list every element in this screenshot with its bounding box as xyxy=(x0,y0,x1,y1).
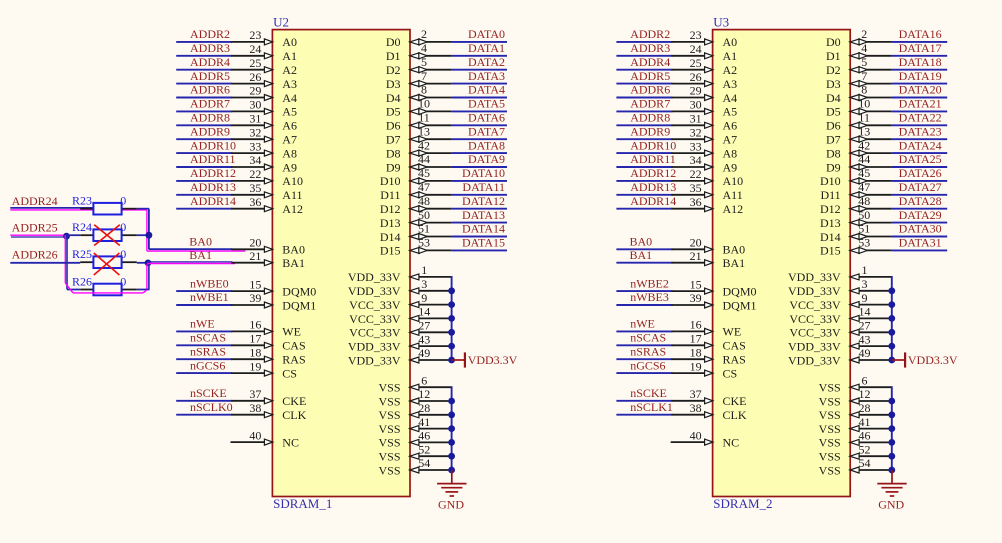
svg-text:VSS: VSS xyxy=(378,463,400,477)
svg-text:43: 43 xyxy=(418,332,430,346)
wire net ADDR14 xyxy=(176,208,232,210)
pin 39 (DQM1) of U2 xyxy=(231,291,316,312)
wire net DATA27 xyxy=(892,194,948,196)
pin 34 (A9) of U2 xyxy=(231,153,297,174)
svg-text:DATA21: DATA21 xyxy=(899,97,942,111)
svg-text:A2: A2 xyxy=(723,63,738,77)
svg-text:15: 15 xyxy=(249,277,261,291)
wire net nSRAS xyxy=(616,358,672,360)
svg-text:WE: WE xyxy=(282,325,301,339)
svg-text:20: 20 xyxy=(690,236,702,250)
svg-text:A3: A3 xyxy=(723,77,738,91)
svg-text:ADDR2: ADDR2 xyxy=(630,27,670,41)
svg-text:A0: A0 xyxy=(282,35,297,49)
svg-text:VSS: VSS xyxy=(378,381,400,395)
pin 41 (VSS) of U3 xyxy=(819,415,892,436)
wire net ADDR8 xyxy=(616,124,672,126)
svg-text:36: 36 xyxy=(249,195,261,209)
svg-text:A4: A4 xyxy=(282,91,297,105)
junction at ADDR25 / R24 / R26 xyxy=(63,233,70,240)
svg-text:44: 44 xyxy=(418,152,430,166)
svg-text:nSRAS: nSRAS xyxy=(190,344,226,358)
wire net nSCAS xyxy=(616,344,672,346)
svg-text:40: 40 xyxy=(249,428,261,442)
pin 18 (RAS) of U3 xyxy=(672,345,746,366)
svg-text:47: 47 xyxy=(418,180,430,194)
wire net DATA7 xyxy=(451,138,507,140)
wire net DATA26 xyxy=(892,180,948,182)
svg-text:DATA17: DATA17 xyxy=(899,41,942,55)
svg-text:R26: R26 xyxy=(72,274,92,288)
wire net ADDR24 (selected) xyxy=(10,208,147,210)
svg-text:CLK: CLK xyxy=(723,408,747,422)
svg-text:A10: A10 xyxy=(282,174,303,188)
wire net DATA0 xyxy=(451,41,507,43)
pin 49 (VDD_33V) of U3 xyxy=(788,346,892,367)
svg-text:1: 1 xyxy=(421,263,427,277)
wire net ADDR6 xyxy=(176,97,232,99)
svg-text:DATA11: DATA11 xyxy=(462,180,505,194)
pin 10 (D5) of U2 xyxy=(386,97,452,119)
svg-text:41: 41 xyxy=(859,415,871,429)
svg-text:7: 7 xyxy=(861,69,867,83)
svg-text:A8: A8 xyxy=(282,146,297,160)
wire net DATA14 xyxy=(451,236,507,238)
svg-text:VCC_33V: VCC_33V xyxy=(789,312,841,326)
svg-text:NC: NC xyxy=(723,435,740,449)
svg-text:A1: A1 xyxy=(723,49,738,63)
svg-text:D9: D9 xyxy=(826,160,841,174)
svg-text:D13: D13 xyxy=(380,216,401,230)
svg-text:DATA5: DATA5 xyxy=(468,97,505,111)
pin 9 (VCC_33V) of U3 xyxy=(789,291,891,312)
svg-text:19: 19 xyxy=(249,359,261,373)
pin 19 (CS) of U3 xyxy=(672,359,738,380)
pin 37 (CKE) of U2 xyxy=(231,387,306,408)
svg-text:2: 2 xyxy=(861,27,867,41)
wire net DATA18 xyxy=(892,69,948,71)
svg-text:25: 25 xyxy=(249,56,261,70)
svg-text:3: 3 xyxy=(421,277,427,291)
svg-text:R24: R24 xyxy=(72,220,92,234)
svg-text:D14: D14 xyxy=(820,230,841,244)
pin 33 (A8) of U2 xyxy=(231,139,297,160)
GND rail of U3 xyxy=(891,386,893,471)
pin 41 (VSS) of U2 xyxy=(378,415,451,436)
svg-text:ADDR11: ADDR11 xyxy=(630,152,676,166)
junction on GND rail of U3 xyxy=(888,398,895,405)
svg-text:VSS: VSS xyxy=(378,394,400,408)
svg-text:24: 24 xyxy=(249,42,261,56)
pin 10 (D5) of U3 xyxy=(826,97,892,119)
svg-text:CKE: CKE xyxy=(282,394,306,408)
svg-text:2: 2 xyxy=(421,27,427,41)
wire net nWBE3 xyxy=(616,304,672,306)
svg-text:A5: A5 xyxy=(723,105,738,119)
svg-text:43: 43 xyxy=(859,332,871,346)
svg-text:ADDR7: ADDR7 xyxy=(190,97,230,111)
svg-text:47: 47 xyxy=(858,180,870,194)
wire net DATA13 xyxy=(451,222,507,224)
svg-text:VSS: VSS xyxy=(819,394,841,408)
no-fit cross on R25 xyxy=(94,253,120,275)
junction on GND rail of U2 xyxy=(448,425,455,432)
wire net BA1 xyxy=(616,262,672,264)
svg-text:D0: D0 xyxy=(386,35,401,49)
pin 8 (D4) of U2 xyxy=(386,83,452,105)
pin 32 (A7) of U3 xyxy=(672,125,738,146)
wire net BA0 (selected) xyxy=(147,249,246,251)
wire net ADDR26 xyxy=(10,262,80,264)
wire net DATA16 xyxy=(892,41,948,43)
svg-text:D10: D10 xyxy=(820,174,841,188)
svg-text:52: 52 xyxy=(859,442,871,456)
svg-text:15: 15 xyxy=(690,277,702,291)
wire net DATA21 xyxy=(892,110,948,112)
junction on VDD rail of U2 xyxy=(448,329,455,336)
svg-text:R25: R25 xyxy=(72,247,92,261)
svg-text:D1: D1 xyxy=(386,49,401,63)
svg-text:A8: A8 xyxy=(723,146,738,160)
svg-text:A11: A11 xyxy=(723,188,743,202)
wire net DATA31 xyxy=(892,249,948,251)
svg-text:DATA18: DATA18 xyxy=(899,55,942,69)
svg-text:27: 27 xyxy=(859,319,871,333)
svg-text:nGCS6: nGCS6 xyxy=(630,358,665,372)
pin 2 (D0) of U2 xyxy=(386,27,452,49)
pin 36 (A12) of U3 xyxy=(672,195,744,216)
svg-text:34: 34 xyxy=(249,153,261,167)
wire junction to R26 xyxy=(67,289,80,291)
svg-text:VSS: VSS xyxy=(378,408,400,422)
pin 15 (DQM0) of U2 xyxy=(231,277,316,298)
resistor R25 xyxy=(72,247,137,268)
pin 54 (VSS) of U2 xyxy=(378,456,451,477)
svg-text:D12: D12 xyxy=(380,202,401,216)
wire net ADDR8 xyxy=(176,124,232,126)
pin 4 (D1) of U3 xyxy=(826,41,892,63)
SDRAM chip U2 body xyxy=(272,30,410,497)
junction on VDD rail of U3 xyxy=(888,357,895,364)
svg-text:ADDR2: ADDR2 xyxy=(190,27,230,41)
svg-text:nWBE1: nWBE1 xyxy=(190,290,229,304)
pin 38 (CLK) of U2 xyxy=(231,401,306,422)
svg-text:30: 30 xyxy=(249,98,261,112)
resistor R26 xyxy=(72,274,137,295)
svg-text:DATA0: DATA0 xyxy=(468,27,505,41)
GND rail of U2 xyxy=(451,386,453,471)
pin 12 (VSS) of U2 xyxy=(378,387,451,408)
svg-text:A2: A2 xyxy=(282,63,297,77)
pin 26 (A3) of U2 xyxy=(231,70,297,91)
wire net nSCLK0 xyxy=(176,414,232,416)
svg-text:22: 22 xyxy=(249,167,261,181)
svg-text:34: 34 xyxy=(690,153,702,167)
pin 20 (BA0) of U2 xyxy=(231,236,305,257)
junction on VDD rail of U3 xyxy=(888,315,895,322)
svg-text:D8: D8 xyxy=(826,146,841,160)
wire net nWE xyxy=(176,330,232,332)
svg-text:CS: CS xyxy=(723,366,738,380)
wire net ADDR3 xyxy=(616,55,672,57)
wire net ADDR7 xyxy=(176,110,232,112)
svg-text:BA1: BA1 xyxy=(282,256,305,270)
pin 9 (VCC_33V) of U2 xyxy=(349,291,451,312)
wire net ADDR13 xyxy=(176,194,232,196)
svg-text:VSS: VSS xyxy=(378,450,400,464)
svg-text:51: 51 xyxy=(858,222,870,236)
svg-text:VCC_33V: VCC_33V xyxy=(789,326,841,340)
wire net DATA29 xyxy=(892,222,948,224)
svg-text:A11: A11 xyxy=(282,188,302,202)
svg-text:SDRAM_1: SDRAM_1 xyxy=(273,496,332,511)
pin 46 (VSS) of U3 xyxy=(819,429,892,450)
svg-text:BA0: BA0 xyxy=(630,235,653,249)
pin 23 (A0) of U3 xyxy=(672,28,738,49)
svg-text:A12: A12 xyxy=(723,202,744,216)
pin 54 (VSS) of U3 xyxy=(819,456,892,477)
power port VDD3.3V of U2 xyxy=(452,352,518,367)
svg-text:VDD_33V: VDD_33V xyxy=(788,284,841,298)
svg-text:0: 0 xyxy=(120,220,126,234)
pin 5 (D2) of U2 xyxy=(386,55,452,77)
resistor R23 xyxy=(72,194,137,215)
wire net DATA10 xyxy=(451,180,507,182)
pin 45 (D10) of U2 xyxy=(380,166,452,188)
junction on VDD rail of U3 xyxy=(888,329,895,336)
svg-text:33: 33 xyxy=(690,139,702,153)
pin 49 (VDD_33V) of U2 xyxy=(348,346,452,367)
svg-text:30: 30 xyxy=(690,98,702,112)
svg-text:DATA16: DATA16 xyxy=(899,27,942,41)
wire net DATA23 xyxy=(892,138,948,140)
svg-text:ADDR25: ADDR25 xyxy=(12,221,58,235)
wire net DATA15 xyxy=(451,249,507,251)
svg-text:8: 8 xyxy=(861,83,867,97)
wire R23 to BA0 node xyxy=(137,209,149,251)
pin 12 (VSS) of U3 xyxy=(819,387,892,408)
svg-text:WE: WE xyxy=(723,325,742,339)
junction on GND rail of U2 xyxy=(448,453,455,460)
svg-text:ADDR9: ADDR9 xyxy=(630,124,670,138)
svg-text:D5: D5 xyxy=(386,105,401,119)
pin 8 (D4) of U3 xyxy=(826,83,892,105)
pin 5 (D2) of U3 xyxy=(826,55,892,77)
pin 6 (VSS) of U2 xyxy=(378,373,451,394)
svg-text:ADDR5: ADDR5 xyxy=(190,69,230,83)
wire net DATA9 xyxy=(451,166,507,168)
svg-text:45: 45 xyxy=(418,166,430,180)
pin 28 (VSS) of U2 xyxy=(378,401,451,422)
wire net BA1 (selected) xyxy=(147,262,235,264)
svg-text:ADDR10: ADDR10 xyxy=(630,138,676,152)
junction on VDD rail of U3 xyxy=(888,343,895,350)
pin 51 (D14) of U3 xyxy=(820,222,892,244)
wire R25 to BA1 node xyxy=(137,262,148,264)
svg-text:21: 21 xyxy=(690,249,702,263)
svg-text:11: 11 xyxy=(858,111,870,125)
svg-text:A9: A9 xyxy=(723,160,738,174)
wire net ADDR11 xyxy=(616,166,672,168)
svg-text:13: 13 xyxy=(418,124,430,138)
wire net ADDR9 xyxy=(616,138,672,140)
svg-text:5: 5 xyxy=(861,55,867,69)
svg-text:VCC_33V: VCC_33V xyxy=(789,298,841,312)
svg-text:U2: U2 xyxy=(273,14,289,29)
svg-text:38: 38 xyxy=(249,401,261,415)
svg-text:DATA24: DATA24 xyxy=(899,138,942,152)
svg-text:ADDR3: ADDR3 xyxy=(190,41,230,55)
svg-text:32: 32 xyxy=(249,125,261,139)
wire net ADDR10 xyxy=(616,152,672,154)
SDRAM chip U3 body xyxy=(713,30,851,497)
wire net ADDR10 xyxy=(176,152,232,154)
pin 7 (D3) of U2 xyxy=(386,69,452,91)
pin 21 (BA1) of U2 xyxy=(231,249,305,270)
pin 29 (A4) of U2 xyxy=(231,84,297,105)
wire net ADDR5 xyxy=(616,83,672,85)
junction on GND rail of U3 xyxy=(888,467,895,474)
junction on GND rail of U2 xyxy=(448,398,455,405)
wire net ADDR7 xyxy=(616,110,672,112)
svg-text:DATA25: DATA25 xyxy=(899,152,942,166)
svg-text:23: 23 xyxy=(690,28,702,42)
svg-text:29: 29 xyxy=(249,84,261,98)
svg-text:9: 9 xyxy=(421,291,427,305)
wire net ADDR12 xyxy=(176,180,232,182)
pin 28 (VSS) of U3 xyxy=(819,401,892,422)
svg-text:ADDR3: ADDR3 xyxy=(630,41,670,55)
wire net nGCS6 xyxy=(616,372,672,374)
svg-text:nSCAS: nSCAS xyxy=(190,331,226,345)
svg-text:35: 35 xyxy=(249,181,261,195)
svg-text:DATA7: DATA7 xyxy=(468,124,505,138)
svg-text:nWBE2: nWBE2 xyxy=(630,276,669,290)
ground symbol GND of U3 xyxy=(877,470,906,511)
wire net DATA2 xyxy=(451,69,507,71)
wire ADDR25 junction down to R26 xyxy=(65,235,67,289)
svg-text:A3: A3 xyxy=(282,77,297,91)
svg-text:54: 54 xyxy=(859,456,871,470)
svg-text:A10: A10 xyxy=(723,174,744,188)
svg-text:A12: A12 xyxy=(282,202,303,216)
svg-text:18: 18 xyxy=(249,345,261,359)
junction on GND rail of U3 xyxy=(888,439,895,446)
svg-text:D3: D3 xyxy=(386,77,401,91)
pin 1 (VDD_33V) of U2 xyxy=(348,263,452,284)
pin 37 (CKE) of U3 xyxy=(672,387,747,408)
junction on GND rail of U2 xyxy=(448,439,455,446)
svg-text:D9: D9 xyxy=(386,160,401,174)
svg-text:46: 46 xyxy=(418,429,430,443)
svg-text:DATA15: DATA15 xyxy=(462,236,505,250)
svg-text:DATA20: DATA20 xyxy=(899,83,942,97)
pin 23 (A0) of U2 xyxy=(231,28,297,49)
pin 40 (NC) of U2 xyxy=(231,428,299,449)
pin 48 (D12) of U2 xyxy=(380,194,452,216)
wire net ADDR6 xyxy=(616,97,672,99)
svg-text:nSCAS: nSCAS xyxy=(630,331,666,345)
svg-text:5: 5 xyxy=(421,55,427,69)
wire net DATA4 xyxy=(451,97,507,99)
svg-text:9: 9 xyxy=(862,291,868,305)
svg-text:A9: A9 xyxy=(282,160,297,174)
pin 34 (A9) of U3 xyxy=(672,153,738,174)
svg-text:VDD_33V: VDD_33V xyxy=(348,284,401,298)
wire net nWBE2 xyxy=(616,290,672,292)
wire net DATA1 xyxy=(451,55,507,57)
pin 24 (A1) of U2 xyxy=(231,42,297,63)
pin 18 (RAS) of U2 xyxy=(231,345,305,366)
svg-text:A6: A6 xyxy=(282,119,297,133)
svg-text:VSS: VSS xyxy=(819,463,841,477)
junction on GND rail of U3 xyxy=(888,453,895,460)
svg-text:D13: D13 xyxy=(820,216,841,230)
pin 4 (D1) of U2 xyxy=(386,41,452,63)
svg-text:23: 23 xyxy=(249,28,261,42)
svg-text:BA0: BA0 xyxy=(282,243,305,257)
svg-text:14: 14 xyxy=(418,305,430,319)
wire net ADDR11 xyxy=(176,166,232,168)
svg-text:CS: CS xyxy=(282,366,297,380)
svg-text:DATA27: DATA27 xyxy=(899,180,942,194)
svg-text:DATA10: DATA10 xyxy=(462,166,505,180)
pin 21 (BA1) of U3 xyxy=(672,249,746,270)
wire net DATA28 xyxy=(892,208,948,210)
pin 33 (A8) of U3 xyxy=(672,139,738,160)
pin 46 (VSS) of U2 xyxy=(378,429,451,450)
pin 50 (D13) of U2 xyxy=(380,208,452,230)
wire net nWBE0 xyxy=(176,290,232,292)
pin 16 (WE) of U3 xyxy=(672,318,742,339)
svg-text:DATA14: DATA14 xyxy=(462,222,505,236)
pin 36 (A12) of U2 xyxy=(231,195,303,216)
no-fit cross on R24 xyxy=(94,225,120,246)
svg-text:VSS: VSS xyxy=(819,381,841,395)
svg-text:6: 6 xyxy=(862,373,868,387)
svg-text:DATA13: DATA13 xyxy=(462,208,505,222)
pin 26 (A3) of U3 xyxy=(672,70,738,91)
pin 22 (A10) of U3 xyxy=(672,167,744,188)
pin 30 (A5) of U3 xyxy=(672,98,738,119)
svg-text:DATA1: DATA1 xyxy=(468,41,505,55)
pin 25 (A2) of U3 xyxy=(672,56,738,77)
svg-text:nWE: nWE xyxy=(630,317,655,331)
svg-text:SDRAM_2: SDRAM_2 xyxy=(713,496,772,511)
pin 20 (BA0) of U3 xyxy=(672,236,746,257)
svg-text:A5: A5 xyxy=(282,105,297,119)
svg-text:18: 18 xyxy=(690,345,702,359)
svg-text:54: 54 xyxy=(418,456,430,470)
wire R24 to BA0 node xyxy=(137,234,149,236)
svg-text:ADDR13: ADDR13 xyxy=(630,180,676,194)
selected wire detour under R26 xyxy=(65,283,147,293)
svg-text:D11: D11 xyxy=(820,188,840,202)
svg-text:27: 27 xyxy=(418,319,430,333)
svg-text:0: 0 xyxy=(120,274,126,288)
svg-text:DATA8: DATA8 xyxy=(468,138,505,152)
pin 47 (D11) of U3 xyxy=(820,180,891,202)
svg-text:11: 11 xyxy=(418,111,430,125)
wire net nSCKE xyxy=(176,400,232,402)
svg-text:BA1: BA1 xyxy=(723,256,746,270)
svg-text:DATA22: DATA22 xyxy=(899,111,942,125)
svg-text:ADDR26: ADDR26 xyxy=(12,248,58,262)
pin 17 (CAS) of U2 xyxy=(231,332,305,353)
svg-text:A7: A7 xyxy=(723,133,738,147)
svg-text:20: 20 xyxy=(249,236,261,250)
svg-text:45: 45 xyxy=(858,166,870,180)
